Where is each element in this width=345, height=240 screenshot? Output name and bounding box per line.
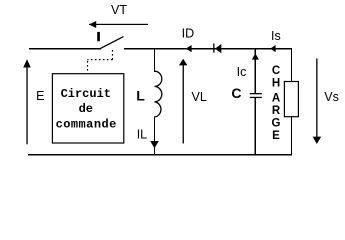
- voltage arrow VL line: [183, 62, 184, 144]
- wire top rail left segment: [29, 48, 101, 49]
- arrow VT line: [89, 24, 148, 25]
- arrow VT head: [89, 21, 96, 28]
- inductor L coil: [155, 71, 162, 117]
- current arrow Is head: [270, 45, 275, 52]
- svg-text:H: H: [272, 78, 280, 90]
- svg-text:Ic: Ic: [237, 65, 247, 79]
- wire right rail lower: [291, 117, 292, 155]
- voltage arrow VL head: [179, 59, 188, 66]
- control box (Circuit de commande): [52, 74, 123, 143]
- svg-text:VT: VT: [111, 3, 127, 17]
- source arrow E head: [23, 59, 31, 67]
- dashed control link vertical to box: [87, 61, 89, 73]
- switch VT contact bar I: [97, 32, 100, 41]
- capacitor C plate bottom: [250, 97, 262, 98]
- svg-text:de: de: [79, 102, 93, 116]
- current arrow Ic head: [252, 53, 259, 59]
- svg-text:R: R: [272, 105, 281, 117]
- dashed control link horizontal: [87, 59, 112, 61]
- wire bottom rail: [28, 154, 292, 155]
- wire inductor branch lower: [154, 117, 155, 155]
- svg-text:G: G: [272, 118, 281, 130]
- svg-text:L: L: [136, 87, 145, 103]
- svg-text:E: E: [36, 89, 44, 103]
- voltage arrow Vs line: [316, 59, 317, 139]
- diode D triangle: [215, 44, 221, 53]
- svg-text:IL: IL: [137, 128, 147, 142]
- wire inductor branch upper: [154, 48, 155, 72]
- wire top rail right segment: [124, 48, 292, 49]
- svg-text:Circuit: Circuit: [61, 87, 111, 101]
- svg-text:ID: ID: [182, 26, 195, 40]
- svg-text:A: A: [272, 93, 280, 105]
- svg-text:VL: VL: [192, 90, 207, 104]
- wire capacitor branch upper: [255, 48, 256, 94]
- dashed control link vertical from switch: [112, 50, 114, 60]
- wire right rail upper: [291, 48, 292, 82]
- load CHARGE rectangle: [284, 82, 298, 117]
- current arrow ID head: [186, 45, 192, 52]
- svg-text:Is: Is: [271, 29, 281, 43]
- source arrow E line: [26, 62, 27, 144]
- voltage arrow Vs head: [313, 137, 322, 144]
- svg-text:C: C: [231, 85, 241, 101]
- svg-text:Vs: Vs: [324, 90, 339, 104]
- switch VT blade (diagonal): [100, 37, 124, 49]
- diode D cathode bar: [213, 44, 214, 53]
- label CHARGE vertical: [272, 65, 281, 142]
- current arrow IL head: [150, 141, 159, 148]
- svg-text:E: E: [272, 130, 280, 142]
- svg-text:commande: commande: [56, 118, 117, 132]
- capacitor C plate top: [250, 93, 262, 94]
- wire capacitor branch lower: [255, 97, 256, 155]
- svg-text:C: C: [272, 65, 280, 77]
